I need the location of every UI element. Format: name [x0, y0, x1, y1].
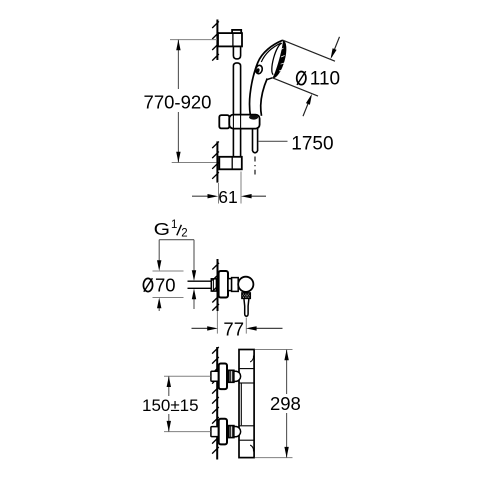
- svg-text:110: 110: [310, 68, 340, 89]
- svg-text:2: 2: [181, 228, 187, 240]
- svg-text:70: 70: [155, 274, 176, 295]
- svg-text:770-920: 770-920: [144, 92, 212, 113]
- svg-text:298: 298: [270, 393, 301, 414]
- svg-text:G: G: [154, 219, 170, 239]
- svg-text:1750: 1750: [291, 133, 333, 154]
- svg-text:77: 77: [223, 318, 244, 339]
- svg-text:150±15: 150±15: [142, 396, 199, 415]
- svg-text:1: 1: [171, 219, 177, 231]
- svg-text:61: 61: [218, 187, 237, 207]
